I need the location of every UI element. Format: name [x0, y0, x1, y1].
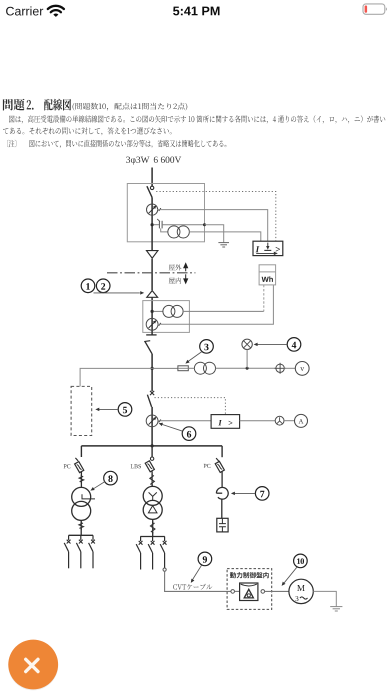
LV bus middle — [140, 536, 165, 538]
cable head outdoor (down triangle) — [147, 251, 158, 259]
LV bus left — [69, 534, 93, 536]
callout arrow 6 — [162, 424, 183, 431]
wire to earth — [205, 225, 224, 243]
feeder breaker M1 — [140, 537, 142, 542]
wire PC to break left — [80, 472, 82, 477]
meter Wh box — [259, 265, 276, 285]
callout circle 8 — [104, 471, 118, 485]
switch LBS contact — [150, 457, 153, 460]
wire PAS main — [151, 197, 153, 250]
callout circle 1 — [81, 279, 95, 293]
wire VCT main through — [151, 311, 153, 332]
meter voltmeter V — [295, 362, 309, 376]
wire reactor to SC — [221, 499, 223, 518]
callout arrow 3 — [188, 352, 202, 362]
label 屋外 — [169, 264, 182, 270]
switch ammeter changeover ⅄ — [275, 416, 284, 425]
callout arrow 7 — [235, 492, 256, 494]
node CVT tap terminal — [163, 568, 166, 571]
status bar clock — [173, 7, 219, 16]
relay SOG box I⏚> — [253, 241, 283, 255]
cutout PC right — [215, 461, 224, 472]
callout arrow 4 — [258, 343, 288, 345]
switch voltmeter changeover ⊕ — [276, 364, 284, 372]
ground PAS — [218, 242, 229, 244]
bus horizontal — [81, 445, 222, 447]
wire CB to CT — [151, 407, 153, 446]
wire into VCT — [151, 297, 153, 311]
callout circle 7 — [255, 487, 269, 501]
boundary arrows — [185, 266, 187, 271]
callout arrow 1-2 — [94, 292, 140, 294]
relay SOG direction arrow — [256, 252, 274, 254]
wire to VCT VT — [154, 310, 164, 312]
label 3φ3W 6 600V — [126, 157, 149, 165]
node VT tap in VCT — [151, 310, 154, 313]
feeder breaker M3 — [164, 537, 166, 542]
wire bus to right PC — [221, 446, 223, 457]
cable head indoor (up triangle) — [147, 291, 158, 298]
cutout PC left tick — [75, 458, 78, 461]
break mark left upper — [80, 475, 82, 483]
callout arrow 8 — [94, 482, 105, 489]
node lamp junction — [246, 367, 249, 370]
wire VT secondary to SOG — [189, 232, 261, 241]
relay SOG earth symbol — [267, 243, 269, 248]
wire break to LV bus left — [80, 528, 82, 535]
cutout PC left — [75, 462, 84, 473]
capacitor ZPD plates — [158, 221, 160, 229]
status bar carrier label — [6, 6, 43, 15]
wire junction to VT fuse — [152, 367, 178, 369]
node VT-branch junction — [151, 367, 154, 370]
wire cable section — [151, 259, 153, 291]
status bar battery icon — [363, 4, 385, 14]
disconnector DS blade — [144, 340, 150, 343]
node PAS capacitor tap — [151, 223, 154, 226]
feeder breaker M2 — [152, 537, 154, 542]
breaker CB contact x — [150, 391, 154, 395]
break mark left lower — [80, 522, 82, 530]
status bar wifi icon — [48, 6, 64, 12]
transformer VT in PAS — [168, 226, 180, 238]
lamp signal ⊗ — [242, 339, 252, 349]
CT overcurrent — [146, 415, 158, 427]
break mark middle lower — [152, 522, 154, 534]
wire VCT VT to Wh — [183, 310, 264, 312]
wire ZCT secondary to SOG — [158, 210, 268, 242]
wire VCT to DS — [151, 332, 153, 335]
node bus junction — [151, 444, 154, 447]
wire ZPD to enclosure edge — [162, 224, 204, 226]
panel dashed box 動力制御盤内 — [227, 569, 272, 610]
wire CT to OCR — [158, 420, 211, 422]
wire VT to voltmeter switch — [188, 367, 194, 369]
callout circle 5 — [118, 403, 132, 417]
ZCT zero-phase CT in PAS — [147, 204, 158, 215]
LA dashed box (omitted arrester) — [71, 386, 92, 435]
wire bus to LBS — [151, 446, 153, 457]
paragraph line 1 — [9, 115, 385, 123]
transformer T1 single-phase — [72, 487, 91, 506]
wire Wh left conductor dashed — [263, 285, 265, 312]
wire terminal to starter — [235, 590, 240, 592]
boundary dash-dot line 屋外/屋内 — [107, 272, 195, 274]
wire LBS to break — [151, 471, 153, 475]
label 屋内 — [169, 278, 181, 284]
callout circle 4 — [287, 338, 301, 352]
reactor series SR — [216, 487, 228, 499]
disconnector DS contact bar — [146, 334, 156, 336]
callout arrow 9 — [193, 565, 202, 579]
feeder breaker L2 — [80, 535, 82, 540]
callout circle 9 — [198, 552, 212, 566]
relay SOG label I — [256, 246, 260, 252]
note line 〔注〕 — [7, 140, 16, 147]
ground motor — [330, 606, 342, 608]
wire starter to motor — [265, 590, 289, 592]
control dotted line from PAS switch — [156, 192, 276, 242]
VCT enclosure box — [143, 301, 190, 333]
CT in VCT — [146, 318, 158, 330]
callout circle 10 — [294, 554, 308, 568]
note line body — [29, 140, 226, 148]
paragraph line 2 — [3, 127, 172, 135]
meter Wh label — [262, 276, 273, 282]
break mark middle upper — [151, 474, 153, 486]
transformer T2 three-phase Y-D — [143, 486, 162, 505]
callout circle 2 — [96, 279, 110, 293]
wire T1 to break — [80, 520, 82, 523]
floating action button — [8, 640, 58, 690]
wire PC to reactor — [221, 472, 223, 488]
wire DS to CB — [151, 354, 153, 392]
wire incoming service drop — [151, 168, 153, 187]
wire break to T2 — [151, 484, 153, 486]
node enclosure edge junction — [203, 223, 206, 226]
transformer VT metering — [194, 362, 206, 374]
label 動力制御盤内 — [230, 572, 269, 578]
callout arrow 10 — [284, 567, 297, 583]
switch PAS blade — [147, 186, 152, 197]
title note (問題数10，配点は1問当たり2点) — [73, 103, 188, 111]
label LBS — [131, 464, 141, 468]
callout circle 6 — [182, 427, 196, 441]
starter box — [240, 583, 258, 601]
cutout PC right tick — [216, 458, 219, 461]
transformer VT in VCT — [163, 305, 175, 317]
breaker CB blade — [147, 395, 151, 407]
relay SOG label > — [276, 247, 280, 252]
feeder breaker L1 — [68, 535, 70, 540]
wire motor to ground — [313, 591, 336, 606]
label PC right — [204, 464, 211, 468]
switch PAS contact — [150, 186, 153, 189]
wire break to T1 — [80, 482, 82, 488]
terminal circle right — [261, 590, 265, 594]
PAS enclosure box — [127, 184, 204, 242]
wire to ammeter — [284, 420, 295, 422]
fuse VT box — [178, 366, 188, 371]
terminal circle left — [231, 590, 235, 594]
motor M 3~ — [289, 579, 313, 603]
title 問題2．配線図 — [3, 99, 25, 111]
wire T2 to break — [152, 519, 154, 523]
capacitor SC box — [217, 518, 228, 532]
wire to voltmeter — [284, 367, 295, 369]
wire VCT CT to Wh — [158, 285, 274, 324]
meter ammeter A — [295, 414, 308, 427]
wire capacitor to VT — [161, 228, 168, 232]
cutout LBS — [145, 461, 154, 472]
control dotted CB to OCR — [155, 398, 226, 415]
wire bus to left PC — [80, 446, 82, 457]
callout arrow 5 — [99, 408, 118, 410]
relay OCR box I> — [211, 415, 240, 429]
callout circle 3 — [200, 340, 214, 354]
relay OCR label — [218, 420, 222, 425]
wire lamp to junction — [246, 350, 248, 369]
wire to ZPD capacitor — [154, 224, 160, 226]
wire break to LV bus mid — [152, 532, 154, 537]
wire CVT cable run — [165, 571, 231, 591]
feeder breaker L3 — [92, 535, 94, 540]
wire junction to LA branch — [80, 368, 152, 386]
label PC left — [64, 464, 71, 468]
label CVTケーブル — [173, 584, 212, 590]
wire OCR to ammeter switch — [240, 420, 276, 422]
